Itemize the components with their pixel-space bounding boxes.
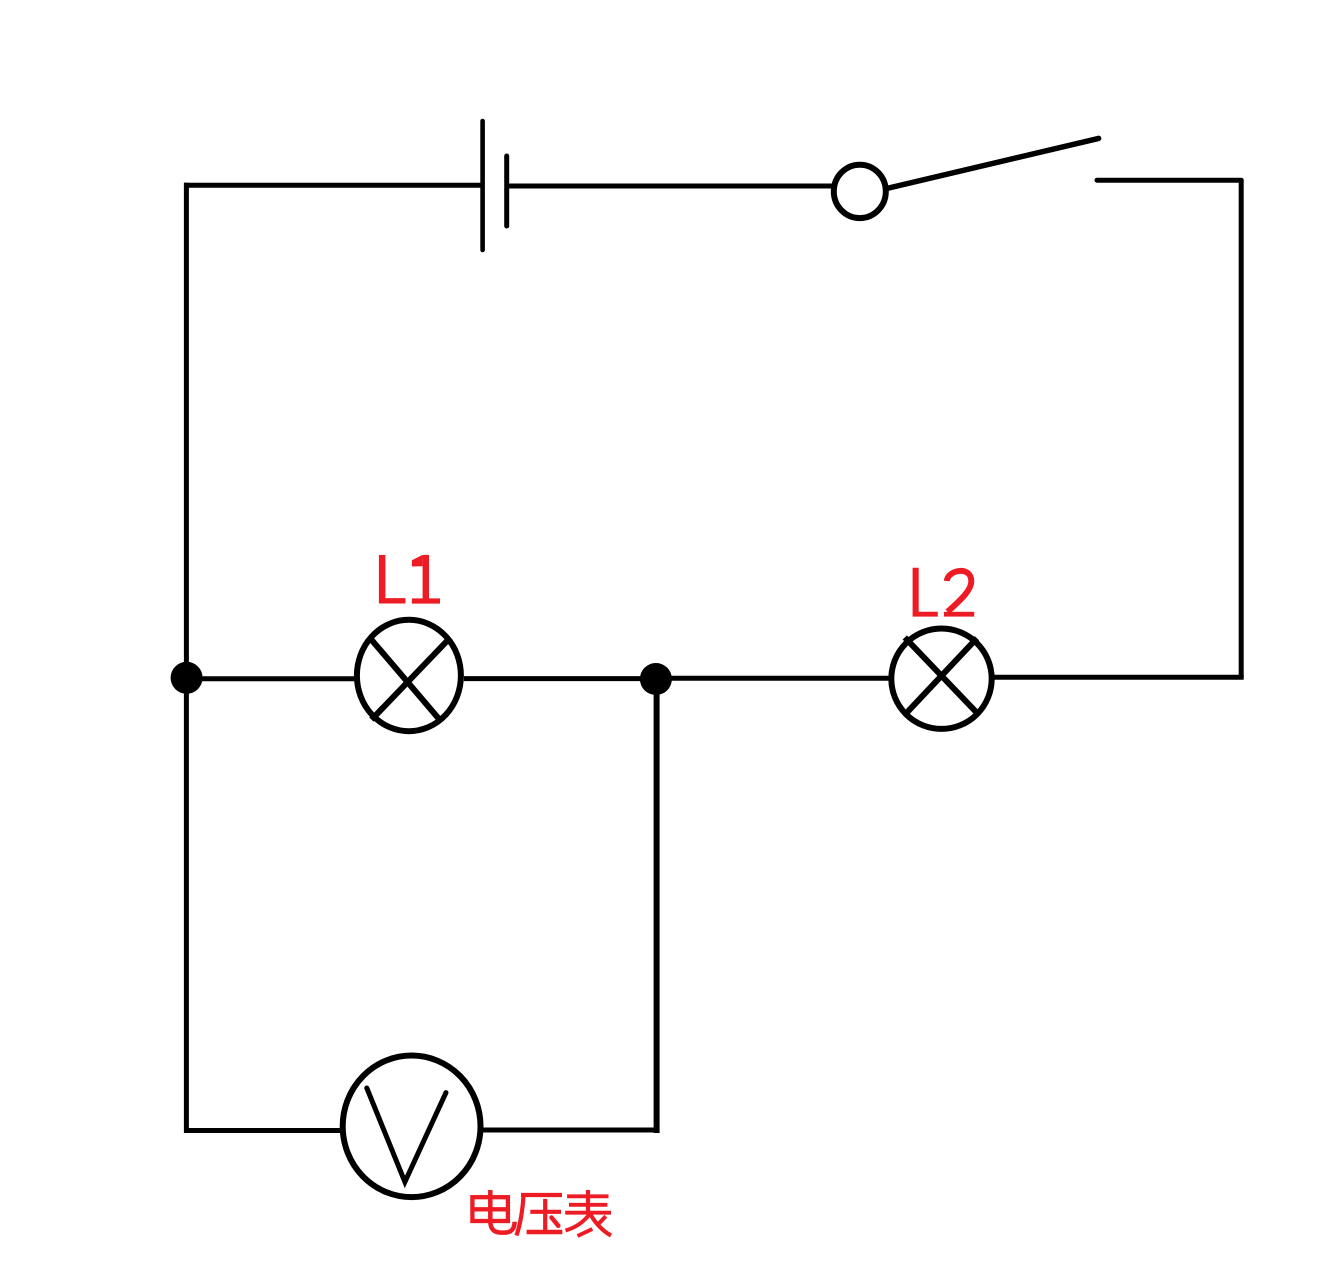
wire: battery to switch [507, 184, 833, 189]
lamp L1 [357, 620, 461, 731]
wire: right vertical [1239, 180, 1244, 677]
表 char [565, 1190, 611, 1236]
battery short plate [504, 156, 509, 226]
switch lever [886, 138, 1099, 188]
battery long plate [480, 121, 485, 250]
压 char [517, 1195, 563, 1236]
wire: L1 to left node [186, 676, 356, 681]
wire: bottom left (corner to voltmeter) [184, 1128, 342, 1133]
电 char [472, 1190, 514, 1233]
wire: bottom right (voltmeter to middle vertical) [483, 1128, 659, 1133]
voltmeter V1 [343, 1056, 481, 1198]
lamp L2 [891, 629, 991, 729]
node junction dot middle [640, 663, 672, 695]
node junction dot left [171, 662, 203, 694]
switch S1 [834, 138, 1099, 218]
wire: top-left horizontal from left corner to battery [184, 183, 483, 188]
wire: L2 to middle node [656, 676, 891, 681]
wire: left vertical [184, 183, 189, 1133]
wire: switch right stub [1097, 178, 1241, 183]
label 电压表 (voltmeter) [472, 1190, 611, 1236]
wire: middle node to L1 [464, 676, 656, 681]
switch pivot circle [834, 165, 886, 218]
label L1 [379, 555, 440, 604]
wire: middle right horizontal (corner to L2) [994, 675, 1244, 680]
battery B1 [483, 121, 507, 250]
label L2 [913, 568, 975, 617]
wire: middle vertical (node to bottom wire) [654, 679, 660, 1133]
